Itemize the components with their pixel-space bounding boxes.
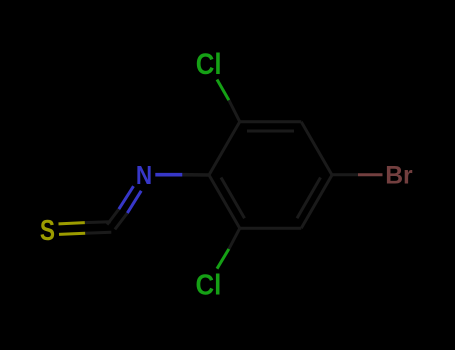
- bond bottom Cl - ring (chlorine half, green): [217, 249, 229, 269]
- ring edge L-TL: [209, 122, 240, 175]
- svg-text:S: S: [40, 216, 55, 247]
- double bond N=C line 1 (carbon half, dark): [107, 209, 119, 224]
- double bond S=C line 1 (carbon half, dark): [85, 220, 111, 224]
- ring inner aromatic line right-lower: [297, 178, 321, 219]
- svg-text:Cl: Cl: [196, 270, 222, 302]
- ring inner aromatic line top: [247, 130, 294, 133]
- bond ring - Br (bromine half, maroon): [358, 173, 383, 176]
- ring inner aromatic line left-lower: [221, 178, 245, 219]
- svg-text:N: N: [136, 161, 152, 190]
- ring edge TL-TR: [240, 120, 302, 123]
- ring edge TR-R: [301, 122, 332, 175]
- ring edge R-BR: [301, 175, 332, 228]
- svg-text:Br: Br: [385, 161, 413, 189]
- bond N - ring (carbon half, dark): [182, 173, 209, 177]
- bond top Cl - ring (chlorine half, green): [217, 80, 229, 101]
- double bond S=C line 1 (sulfur half, yellow): [59, 223, 85, 224]
- benzene ring (carbon bonds, near-black): [209, 122, 332, 229]
- bond N - ring (nitrogen half, blue): [155, 173, 182, 177]
- svg-text:Cl: Cl: [196, 48, 222, 81]
- label S: [40, 216, 55, 247]
- bond top Cl - ring (carbon half, dark): [229, 100, 240, 122]
- double bond N=C line 2 (carbon half, dark): [115, 213, 127, 229]
- ring edge BR-BL: [240, 227, 302, 230]
- double bond N=C line 1 (blue half): [119, 186, 134, 209]
- double bond S=C line 2 (carbon half, dark): [85, 231, 111, 235]
- double bond N=C line 2 (blue half): [127, 191, 141, 213]
- label N: [136, 161, 152, 190]
- bond bottom Cl - ring (carbon half, dark): [229, 228, 240, 249]
- double bond S=C line 2 (sulfur half, yellow): [59, 233, 85, 234]
- bond ring - Br (carbon half, dark): [332, 173, 358, 176]
- ring edge BL-L: [209, 175, 240, 228]
